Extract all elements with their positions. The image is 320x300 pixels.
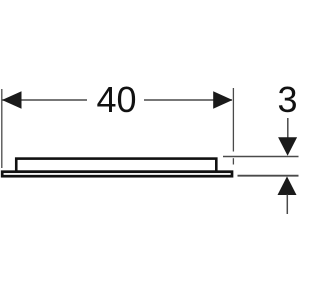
svg-text:3: 3 xyxy=(278,79,298,120)
svg-text:40: 40 xyxy=(97,79,137,120)
